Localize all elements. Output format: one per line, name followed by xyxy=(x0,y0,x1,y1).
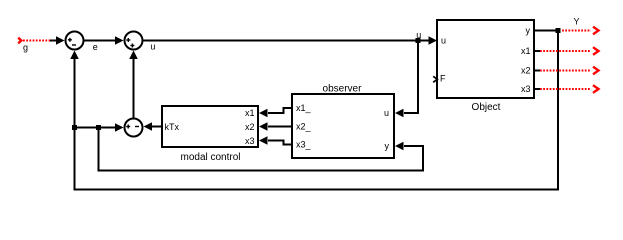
svg-text:g: g xyxy=(23,42,28,52)
svg-text:x3_: x3_ xyxy=(296,140,312,150)
svg-text:x1_: x1_ xyxy=(296,103,312,113)
svg-text:modal control: modal control xyxy=(180,152,240,163)
svg-text:Y: Y xyxy=(574,17,580,27)
svg-text:x1: x1 xyxy=(245,108,255,118)
svg-text:y: y xyxy=(526,26,531,36)
svg-text:u: u xyxy=(384,108,389,118)
svg-text:Object: Object xyxy=(472,102,501,113)
svg-text:x3: x3 xyxy=(245,136,255,146)
svg-text:observer: observer xyxy=(323,84,363,95)
svg-text:u: u xyxy=(441,36,446,46)
svg-text:x2: x2 xyxy=(521,66,531,76)
svg-text:x3: x3 xyxy=(521,84,531,94)
svg-text:y: y xyxy=(385,141,390,151)
svg-text:F: F xyxy=(440,74,446,84)
svg-text:kTx: kTx xyxy=(165,122,180,132)
svg-text:u: u xyxy=(150,42,155,52)
svg-text:x2: x2 xyxy=(245,122,255,132)
svg-text:e: e xyxy=(93,42,98,52)
svg-text:u: u xyxy=(416,30,421,40)
svg-text:x2_: x2_ xyxy=(296,122,312,132)
svg-text:x1: x1 xyxy=(521,46,531,56)
